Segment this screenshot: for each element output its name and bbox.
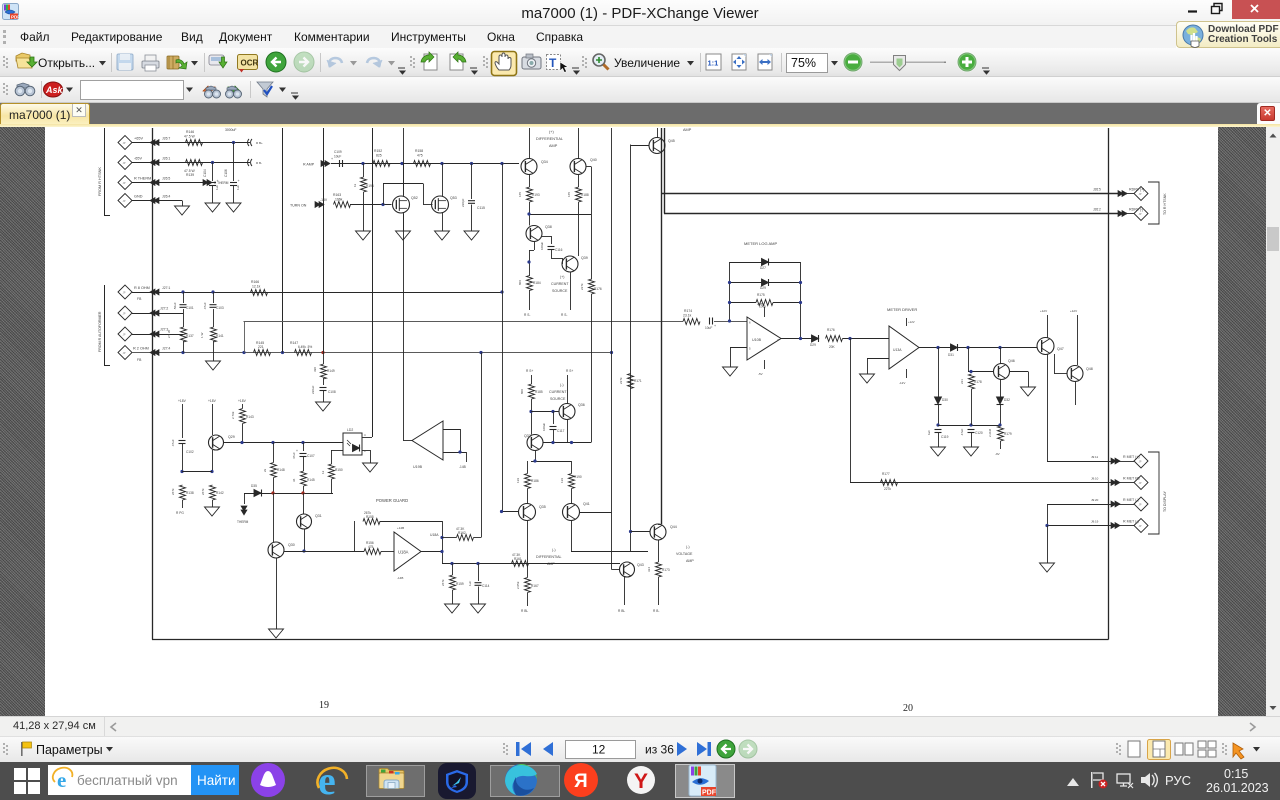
svg-text:C101: C101 xyxy=(186,306,194,310)
svg-text:10uF: 10uF xyxy=(334,155,341,159)
svg-text:R S-: R S- xyxy=(561,313,567,317)
svg-text:R B+: R B+ xyxy=(256,141,263,145)
svg-text:825: 825 xyxy=(376,154,382,158)
svg-text:J9:11: J9:11 xyxy=(1091,455,1098,459)
svg-text:R150: R150 xyxy=(335,468,343,472)
svg-text:R184: R184 xyxy=(533,281,541,285)
svg-text:+: + xyxy=(331,157,333,161)
svg-text:36: 36 xyxy=(292,478,296,482)
svg-text:.47uF: .47uF xyxy=(203,302,207,310)
svg-text:Открыть...: Открыть... xyxy=(38,56,95,70)
svg-text:AMP: AMP xyxy=(549,144,558,148)
svg-text:R S-: R S- xyxy=(524,313,530,317)
svg-text:JP: JP xyxy=(1139,524,1142,528)
svg-text:FB: FB xyxy=(137,297,142,301)
svg-text:Q52: Q52 xyxy=(411,196,418,200)
svg-text:-12V: -12V xyxy=(899,381,905,385)
svg-text:100uF: 100uF xyxy=(542,423,546,431)
svg-text:12: 12 xyxy=(592,743,606,757)
svg-text:2.79k: 2.79k xyxy=(231,411,235,419)
svg-text:-14B: -14B xyxy=(459,465,466,469)
svg-text:C103: C103 xyxy=(216,306,224,310)
svg-text:C102: C102 xyxy=(186,450,194,454)
svg-text:6.49k .5%: 6.49k .5% xyxy=(298,345,312,349)
svg-text:1:1: 1:1 xyxy=(708,59,719,68)
svg-text:Y: Y xyxy=(634,770,648,793)
svg-text:R190: R190 xyxy=(574,475,582,479)
svg-text:J27:1: J27:1 xyxy=(162,286,170,290)
svg-text:C107: C107 xyxy=(307,454,315,458)
svg-text:Q53: Q53 xyxy=(450,196,457,200)
svg-text:+: + xyxy=(714,324,716,328)
svg-text:R 2 OHM: R 2 OHM xyxy=(133,347,149,351)
svg-text:Q31: Q31 xyxy=(315,514,322,518)
svg-text:1uF: 1uF xyxy=(215,185,219,190)
svg-text:JP: JP xyxy=(1139,503,1142,507)
svg-text:JP: JP xyxy=(123,291,126,295)
svg-text:806: 806 xyxy=(518,280,522,285)
svg-text:165: 165 xyxy=(567,192,571,197)
svg-text:C119: C119 xyxy=(941,435,949,439)
svg-text:R178: R178 xyxy=(974,380,982,384)
svg-text:JP: JP xyxy=(123,351,126,355)
svg-text:J27:2: J27:2 xyxy=(160,307,168,311)
svg-text:23.1k: 23.1k xyxy=(683,314,692,318)
svg-text:Q43: Q43 xyxy=(637,563,644,567)
svg-text:1uF: 1uF xyxy=(236,185,240,190)
svg-text:10uF: 10uF xyxy=(705,326,712,330)
svg-text:R 8 OHM: R 8 OHM xyxy=(134,286,150,290)
svg-text:Q40: Q40 xyxy=(590,158,597,162)
svg-text:267k: 267k xyxy=(201,488,205,495)
svg-text:D29: D29 xyxy=(810,343,816,347)
svg-text:3000uF: 3000uF xyxy=(225,128,237,132)
svg-text:C117: C117 xyxy=(557,429,565,433)
svg-text:R BL: R BL xyxy=(521,609,528,613)
svg-text:1uF: 1uF xyxy=(927,430,931,435)
svg-text:R175: R175 xyxy=(757,293,765,297)
svg-text:R138: R138 xyxy=(186,491,194,495)
svg-text:бесплатный vpn: бесплатный vpn xyxy=(77,773,178,788)
svg-text:TO DISPLAY: TO DISPLAY xyxy=(1163,491,1167,512)
svg-text:R147: R147 xyxy=(290,341,298,345)
svg-text:R188: R188 xyxy=(581,193,589,197)
svg-text:(+): (+) xyxy=(549,130,554,134)
svg-text:1 W: 1 W xyxy=(200,332,204,338)
svg-text:267k: 267k xyxy=(171,488,175,495)
svg-text:OCR: OCR xyxy=(241,59,259,68)
svg-text:196k: 196k xyxy=(335,198,343,202)
svg-text:2k: 2k xyxy=(263,468,267,472)
svg-text:J26:5: J26:5 xyxy=(1093,188,1101,192)
svg-text:R146: R146 xyxy=(186,130,194,134)
svg-text:R145: R145 xyxy=(307,478,315,482)
svg-text:+: + xyxy=(296,449,298,453)
svg-text:J26:7: J26:7 xyxy=(162,137,170,141)
svg-text:227k: 227k xyxy=(884,487,891,491)
svg-text:Ask: Ask xyxy=(45,85,64,95)
svg-text:12: 12 xyxy=(321,470,325,474)
svg-text:Q34: Q34 xyxy=(541,160,548,164)
svg-text:R179: R179 xyxy=(1004,432,1012,436)
svg-text:J26:2: J26:2 xyxy=(1093,208,1101,212)
svg-text:100uF: 100uF xyxy=(540,242,544,250)
svg-text:R143: R143 xyxy=(246,415,254,419)
svg-text:D29: D29 xyxy=(760,286,766,290)
svg-text:U10B: U10B xyxy=(752,338,762,342)
svg-text:800: 800 xyxy=(520,389,524,394)
svg-text:DIFFERENTIAL: DIFFERENTIAL xyxy=(536,555,562,559)
svg-text:C108: C108 xyxy=(328,390,336,394)
svg-text:0:15: 0:15 xyxy=(1224,767,1248,781)
svg-text:221: 221 xyxy=(960,379,964,384)
svg-text:PDF: PDF xyxy=(11,15,19,20)
svg-text:Увеличение: Увеличение xyxy=(614,56,680,70)
svg-text:-9V: -9V xyxy=(995,452,1000,456)
svg-text:139: 139 xyxy=(560,478,564,483)
svg-text:1uF: 1uF xyxy=(468,581,472,586)
svg-text:324: 324 xyxy=(647,567,651,572)
svg-text:РУС: РУС xyxy=(1165,773,1191,788)
svg-text:Q29: Q29 xyxy=(228,435,235,439)
svg-text:FROM R HTSNK: FROM R HTSNK xyxy=(98,167,102,196)
svg-text:Q46: Q46 xyxy=(1008,359,1015,363)
svg-text:POWER GUARD: POWER GUARD xyxy=(376,498,408,503)
svg-text:+: + xyxy=(217,179,219,183)
svg-text:Найти: Найти xyxy=(197,773,236,788)
svg-text:+18V: +18V xyxy=(238,399,247,403)
svg-text:SOURCE: SOURCE xyxy=(552,289,568,293)
svg-text:-65V: -65V xyxy=(134,157,142,161)
svg-text:TO R HTSNK: TO R HTSNK xyxy=(1163,193,1167,215)
svg-text:.56uF: .56uF xyxy=(173,302,177,310)
svg-text:Q44: Q44 xyxy=(670,525,677,529)
svg-text:C106: C106 xyxy=(224,169,228,177)
svg-text:R176: R176 xyxy=(594,287,602,291)
svg-text:4: 4 xyxy=(364,433,366,437)
svg-text:C116: C116 xyxy=(555,248,563,252)
svg-text:26.01.2023: 26.01.2023 xyxy=(1206,781,1269,795)
svg-text:FB: FB xyxy=(137,358,142,362)
svg-text:R193: R193 xyxy=(532,193,540,197)
svg-text:R THERM: R THERM xyxy=(134,177,151,181)
svg-text:Q48: Q48 xyxy=(1086,367,1093,371)
svg-text:R161: R161 xyxy=(514,557,522,561)
svg-text:R158: R158 xyxy=(415,149,423,153)
svg-text:Q37: Q37 xyxy=(524,434,531,438)
svg-text:JP: JP xyxy=(1139,212,1142,216)
svg-text:T: T xyxy=(549,56,557,70)
svg-text:2.05k: 2.05k xyxy=(516,581,520,589)
svg-text:R142: R142 xyxy=(216,491,224,495)
svg-text:2.21M: 2.21M xyxy=(988,428,992,437)
svg-text:+14B: +14B xyxy=(397,526,404,530)
svg-text:-18V: -18V xyxy=(320,198,328,202)
svg-text:221: 221 xyxy=(258,345,264,349)
svg-text:J26:5: J26:5 xyxy=(162,177,170,181)
svg-text:D32: D32 xyxy=(1004,398,1010,402)
svg-text:+18V: +18V xyxy=(208,399,217,403)
svg-text:-5V: -5V xyxy=(758,372,763,376)
svg-text:47.5 W: 47.5 W xyxy=(184,135,196,139)
svg-text:+12V: +12V xyxy=(1040,309,1047,313)
svg-text:R176: R176 xyxy=(827,328,835,332)
svg-text:+18V: +18V xyxy=(757,302,764,306)
svg-text:из 36: из 36 xyxy=(645,743,674,757)
svg-text:1k: 1k xyxy=(353,183,357,187)
svg-text:220uF: 220uF xyxy=(311,385,315,394)
svg-text:227k: 227k xyxy=(619,377,623,384)
svg-text:R PG: R PG xyxy=(176,511,184,515)
svg-text:-14B: -14B xyxy=(397,576,403,580)
svg-text:LD2: LD2 xyxy=(347,428,353,432)
svg-text:D35: D35 xyxy=(251,484,257,488)
svg-text:R173: R173 xyxy=(662,568,670,572)
svg-text:220pF: 220pF xyxy=(461,198,465,207)
svg-text:6: 6 xyxy=(749,321,751,325)
svg-text:J9:20: J9:20 xyxy=(1091,498,1099,502)
svg-text:Параметры: Параметры xyxy=(36,743,103,757)
svg-text:+12V: +12V xyxy=(1070,309,1077,313)
svg-text:R177: R177 xyxy=(882,472,890,476)
svg-text:JP: JP xyxy=(123,141,126,145)
svg-text:U13A: U13A xyxy=(893,348,902,352)
svg-text:(-): (-) xyxy=(552,548,556,552)
svg-text:AMP: AMP xyxy=(683,128,692,132)
svg-text:R166: R166 xyxy=(251,280,259,284)
svg-text:R152: R152 xyxy=(374,149,382,153)
svg-text:R141: R141 xyxy=(216,334,224,338)
svg-text:e: e xyxy=(57,768,66,792)
svg-text:12.1k: 12.1k xyxy=(252,285,261,289)
svg-text:R S+: R S+ xyxy=(526,369,533,373)
svg-text:TURN ON: TURN ON xyxy=(290,204,307,208)
svg-text:R BL: R BL xyxy=(618,609,625,613)
svg-text:JP: JP xyxy=(123,312,126,316)
svg-text:JP: JP xyxy=(1139,192,1142,196)
svg-text:20K: 20K xyxy=(829,345,836,349)
svg-text:(-): (-) xyxy=(686,545,690,549)
svg-text:R159: R159 xyxy=(456,582,464,586)
svg-text:C120: C120 xyxy=(975,431,983,435)
svg-text:U18A: U18A xyxy=(398,550,409,555)
svg-text:JP: JP xyxy=(123,161,126,165)
svg-text:R149: R149 xyxy=(327,369,335,373)
svg-text:R B-: R B- xyxy=(653,609,659,613)
svg-text:J26:1: J26:1 xyxy=(162,157,170,161)
svg-text:19: 19 xyxy=(319,700,329,711)
svg-text:75%: 75% xyxy=(791,56,816,70)
svg-text:R162: R162 xyxy=(458,531,466,535)
svg-text:AMP: AMP xyxy=(547,562,555,566)
svg-text:JP: JP xyxy=(123,181,126,185)
svg-text:Q36: Q36 xyxy=(578,403,585,407)
svg-text:+: + xyxy=(238,179,240,183)
svg-text:THERM: THERM xyxy=(237,520,249,524)
svg-text:C115: C115 xyxy=(477,206,485,210)
svg-text:J26:4: J26:4 xyxy=(162,195,170,199)
svg-text:CURRENT: CURRENT xyxy=(551,282,569,286)
svg-text:C109: C109 xyxy=(334,150,342,154)
svg-text:D27: D27 xyxy=(760,266,766,270)
svg-text:J9:19: J9:19 xyxy=(1091,520,1099,524)
svg-text:R148: R148 xyxy=(277,468,285,472)
svg-text:JP: JP xyxy=(1139,460,1142,464)
svg-text:+65V: +65V xyxy=(134,137,143,141)
svg-text:475: 475 xyxy=(368,545,374,549)
svg-text:267k: 267k xyxy=(441,579,445,586)
svg-text:165: 165 xyxy=(518,192,522,197)
svg-text:U19B: U19B xyxy=(413,465,423,469)
svg-text:Q30: Q30 xyxy=(288,543,295,547)
svg-text:3: 3 xyxy=(364,449,366,453)
svg-text:DIFFERENTIAL: DIFFERENTIAL xyxy=(536,137,563,141)
svg-text:R174: R174 xyxy=(684,309,692,313)
svg-text:C104: C104 xyxy=(203,169,207,177)
svg-text:227k: 227k xyxy=(580,283,584,290)
svg-text:AMP: AMP xyxy=(686,559,694,563)
svg-text:390: 390 xyxy=(313,367,317,372)
svg-text:CURRENT: CURRENT xyxy=(549,390,567,394)
svg-text:J9:10: J9:10 xyxy=(1091,477,1099,481)
svg-text:R139: R139 xyxy=(186,173,194,177)
svg-text:VOLTAGE: VOLTAGE xyxy=(676,552,693,556)
svg-text:R137: R137 xyxy=(186,334,194,338)
svg-text:PDF: PDF xyxy=(702,790,717,797)
svg-text:Q35: Q35 xyxy=(539,505,546,509)
svg-text:+18V: +18V xyxy=(178,399,187,403)
svg-text:JP: JP xyxy=(1139,481,1142,485)
svg-text:JP: JP xyxy=(123,199,126,203)
svg-text:R S+: R S+ xyxy=(566,369,573,373)
svg-text:R B-: R B- xyxy=(256,161,262,165)
svg-text:Q39: Q39 xyxy=(581,256,588,260)
svg-text:.47uF: .47uF xyxy=(171,439,175,447)
svg-text:(-): (-) xyxy=(560,383,564,387)
svg-text:R171: R171 xyxy=(634,379,642,383)
svg-text:139: 139 xyxy=(516,478,520,483)
svg-text:Q41: Q41 xyxy=(583,502,590,506)
svg-text:.47uF: .47uF xyxy=(960,428,964,436)
svg-text:R185: R185 xyxy=(535,390,543,394)
svg-text:5: 5 xyxy=(749,347,751,351)
svg-text:R186: R186 xyxy=(531,479,539,483)
svg-text:Я: Я xyxy=(574,771,588,792)
svg-text:SOURCE: SOURCE xyxy=(550,397,566,401)
svg-text:+12V: +12V xyxy=(908,320,915,324)
svg-text:20: 20 xyxy=(903,703,913,714)
svg-text:R AMP: R AMP xyxy=(303,163,315,167)
svg-text:R163: R163 xyxy=(333,193,341,197)
svg-text:(+): (+) xyxy=(560,275,565,279)
svg-text:METER DRIVER: METER DRIVER xyxy=(887,307,917,312)
svg-text:GND: GND xyxy=(134,195,143,199)
svg-text:METER LOG AMP: METER LOG AMP xyxy=(744,241,777,246)
svg-text:Q47: Q47 xyxy=(1057,347,1064,351)
svg-text:Q38: Q38 xyxy=(545,225,552,229)
svg-text:D30: D30 xyxy=(942,398,948,402)
svg-text:47uF: 47uF xyxy=(292,452,296,459)
svg-text:475: 475 xyxy=(417,154,423,158)
svg-text:D31: D31 xyxy=(948,353,954,357)
svg-text:FROM R AUTOFORMER: FROM R AUTOFORMER xyxy=(98,311,102,352)
svg-text:R167: R167 xyxy=(531,584,539,588)
svg-text:Q45: Q45 xyxy=(668,139,675,143)
svg-text:2.5 W: 2.5 W xyxy=(167,330,171,338)
svg-text:R155: R155 xyxy=(366,515,374,519)
svg-text:U18A: U18A xyxy=(430,533,439,537)
svg-text:JP: JP xyxy=(123,333,126,337)
svg-text:J27:4: J27:4 xyxy=(162,347,170,351)
svg-text:C114: C114 xyxy=(482,584,490,588)
